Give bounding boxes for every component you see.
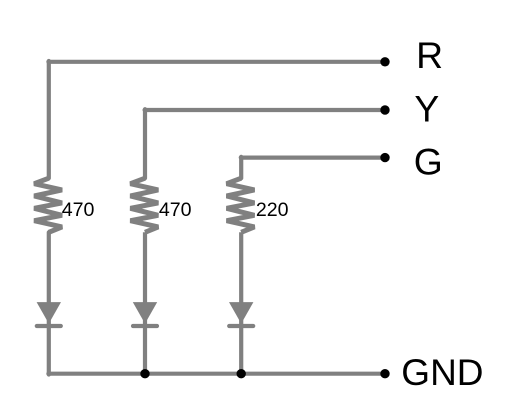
svg-text:R: R — [416, 34, 443, 76]
wire R3 bottom through LED D3 to GND rail — [239, 232, 243, 373]
junction dot LED3/GND rail — [237, 369, 246, 378]
node GND terminal dot — [380, 369, 389, 378]
wire Y net: vertical down to resistor R2 — [143, 109, 147, 178]
LED D1 triangle — [37, 302, 61, 324]
node Y terminal dot — [380, 105, 389, 114]
wire Y net: horizontal from Y terminal to column 2 — [145, 108, 385, 112]
wire G net: vertical down to resistor R3 — [239, 157, 243, 178]
resistor R3 zigzag 220 — [227, 178, 255, 232]
resistor R2 zigzag 470 — [130, 178, 158, 232]
node G terminal dot — [380, 153, 389, 162]
LED D1 cathode bar — [37, 324, 61, 328]
svg-text:470: 470 — [62, 199, 95, 221]
LED D3 cathode bar — [229, 324, 253, 328]
svg-text:Y: Y — [414, 88, 439, 130]
LED D3 triangle — [229, 302, 253, 324]
wire G net: horizontal from G terminal to column 3 — [241, 156, 385, 160]
LED D2 triangle — [133, 302, 157, 324]
wire R net: vertical down to resistor R1 — [47, 61, 51, 178]
wire GND rail — [48, 372, 385, 376]
wire R net: horizontal from R terminal to column 1 — [48, 60, 385, 64]
node R terminal dot — [380, 57, 389, 66]
svg-text:470: 470 — [159, 199, 192, 221]
svg-text:G: G — [414, 141, 443, 183]
wire R1 bottom through LED D1 to GND rail — [47, 232, 51, 374]
svg-text:GND: GND — [401, 352, 483, 393]
svg-text:220: 220 — [256, 199, 289, 221]
wire R2 bottom through LED D2 to GND rail — [143, 232, 147, 373]
LED D2 cathode bar — [133, 324, 157, 328]
resistor R1 zigzag 470 — [34, 178, 62, 232]
junction dot LED2/GND rail — [140, 369, 149, 378]
